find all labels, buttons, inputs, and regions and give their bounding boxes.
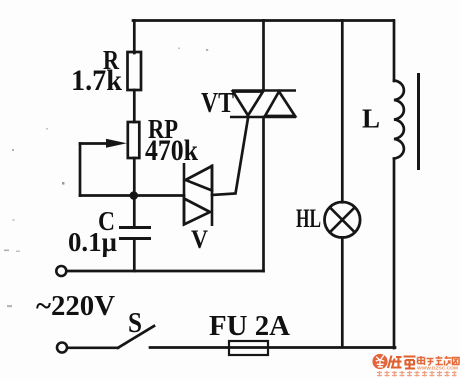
svg-text:V: V (191, 225, 208, 254)
capacitor C (119, 228, 151, 239)
wire lamp branch lower (341, 237, 344, 347)
wire R branch top (133, 21, 136, 54)
wire mid horizontal to terminal (67, 270, 264, 273)
inductor core bar (417, 73, 420, 170)
svg-text:VT: VT (201, 88, 234, 119)
wire triac branch upper (262, 21, 265, 91)
node A junction dot (130, 191, 139, 200)
svg-text:470k: 470k (145, 134, 198, 167)
diac V (184, 163, 212, 226)
fuse FU (229, 341, 268, 355)
wire C bottom (133, 239, 136, 272)
wire triac branch lower (262, 117, 265, 271)
wire top bus (133, 19, 394, 22)
triac VT (230, 91, 296, 118)
lamp HL (325, 202, 361, 238)
wire bottom bus (150, 346, 395, 349)
watermark logo disc (372, 354, 387, 369)
svg-text:1.7k: 1.7k (71, 64, 122, 97)
scan speckles (4, 48, 208, 308)
svg-text:HL: HL (296, 204, 321, 233)
wire wiper down leg (79, 144, 82, 196)
wire RP to node A (133, 158, 136, 227)
wire inductor branch lower (393, 159, 396, 348)
watermark text weiku (388, 356, 416, 369)
potentiometer RP (128, 122, 140, 158)
svg-text:~220V: ~220V (36, 290, 115, 322)
terminal lower (57, 343, 67, 353)
watermark text market (418, 356, 460, 366)
wiper arrow of RP (80, 142, 110, 145)
wire triac gate (212, 118, 248, 195)
inductor L coil (394, 81, 404, 159)
resistor R (128, 52, 142, 90)
switch S (67, 326, 154, 348)
svg-text:S: S (128, 307, 142, 339)
wire wiper to node A (80, 194, 184, 197)
svg-text:FU 2A: FU 2A (209, 311, 291, 342)
terminal upper (56, 266, 66, 276)
wire R to RP (133, 90, 136, 122)
svg-text:L: L (362, 104, 380, 134)
watermark tagline (377, 371, 457, 377)
wire inductor branch upper (393, 21, 396, 82)
wire lamp branch upper (341, 21, 344, 203)
svg-text:WWW.DZSC.COM: WWW.DZSC.COM (417, 366, 459, 371)
svg-text:0.1µ: 0.1µ (68, 227, 117, 257)
